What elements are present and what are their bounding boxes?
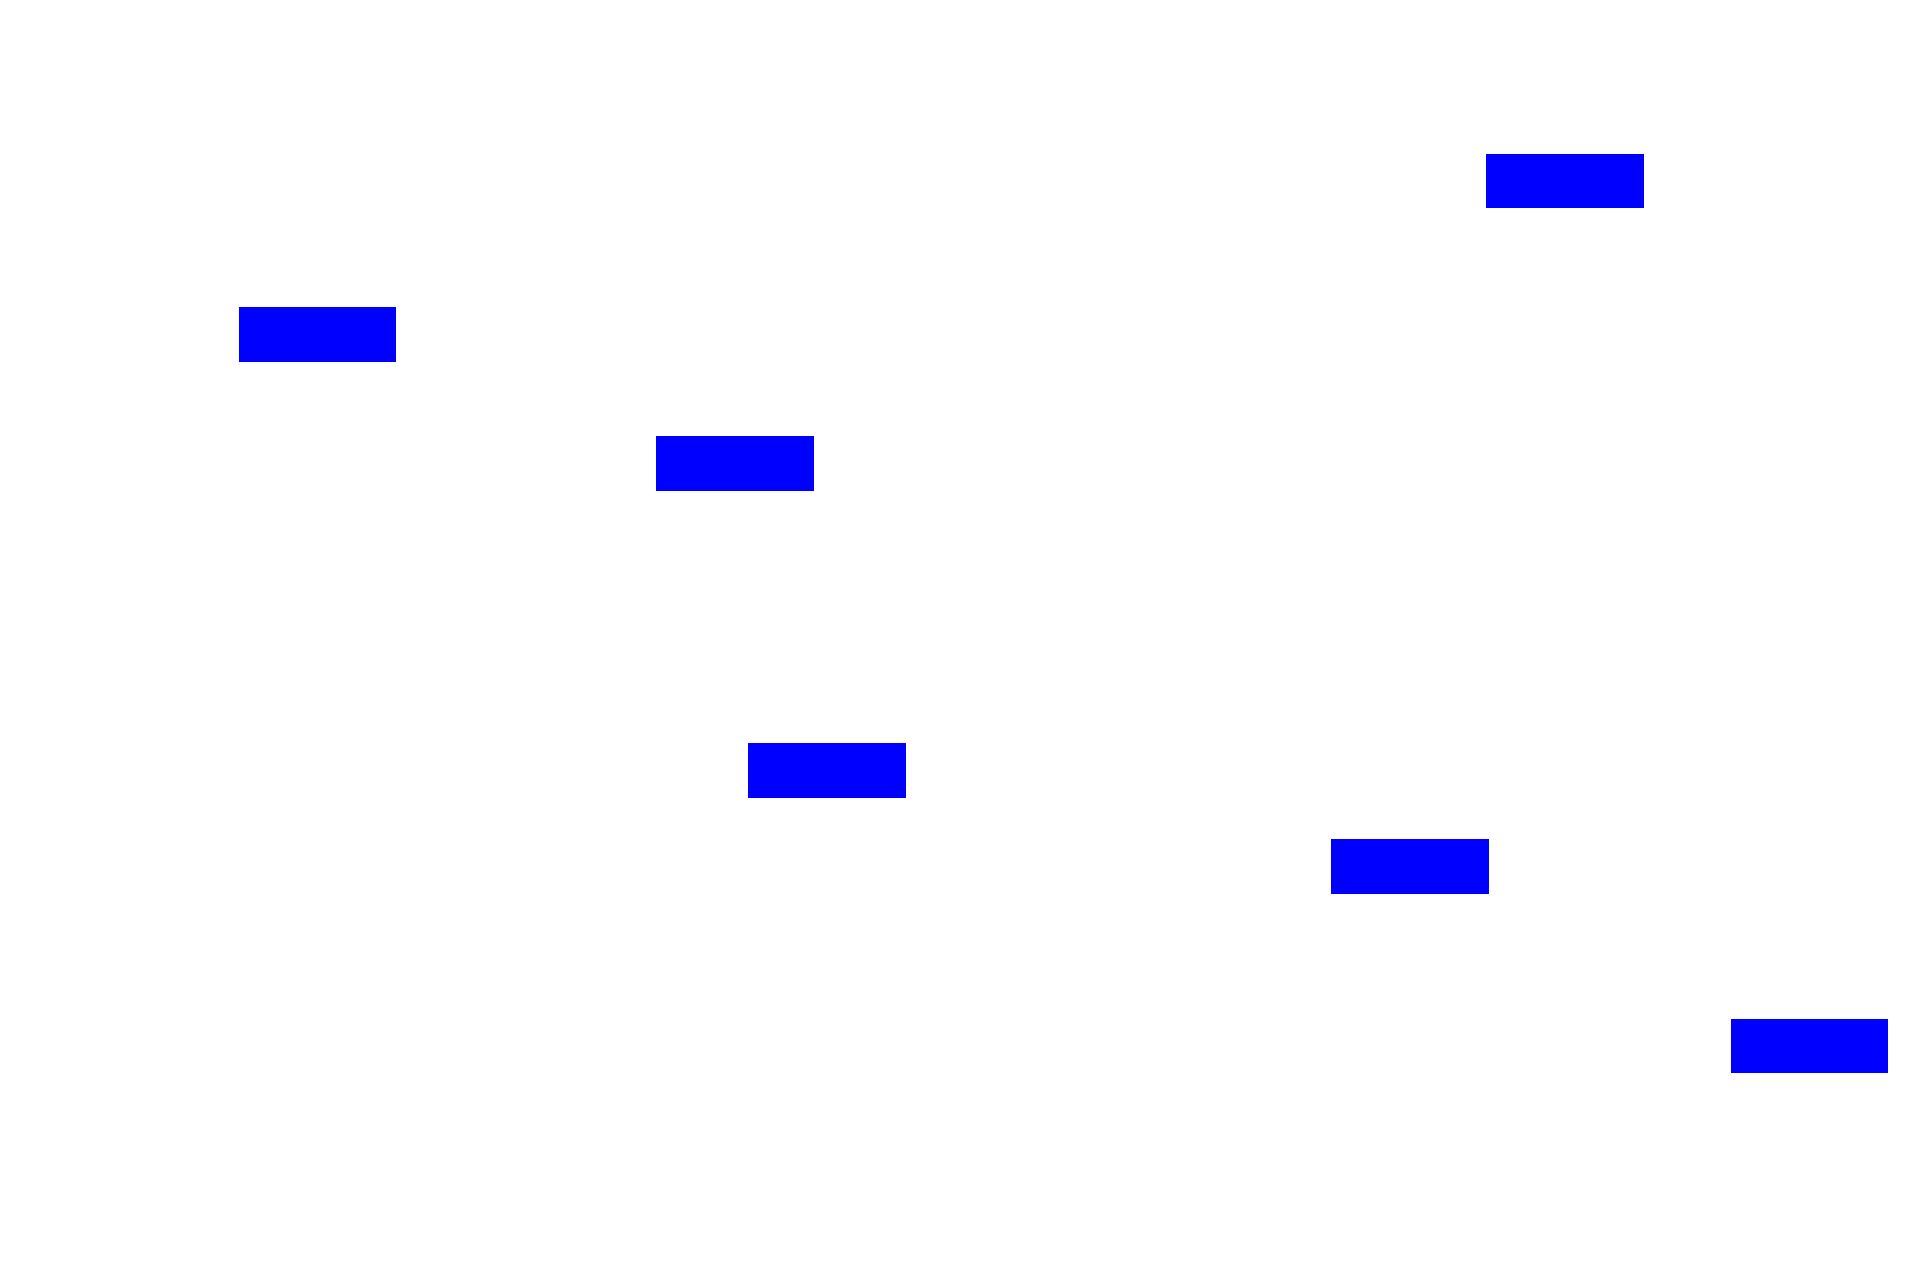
blue rectangle 1 (top right) — [1486, 154, 1644, 208]
blue rectangle 2 (upper left) — [239, 307, 396, 362]
blue rectangle 4 (center) — [748, 743, 906, 798]
blue rectangle 3 (center left) — [656, 436, 814, 491]
blue rectangle 5 (lower right-center) — [1331, 839, 1489, 894]
blue rectangle 6 (bottom right) — [1731, 1019, 1888, 1073]
